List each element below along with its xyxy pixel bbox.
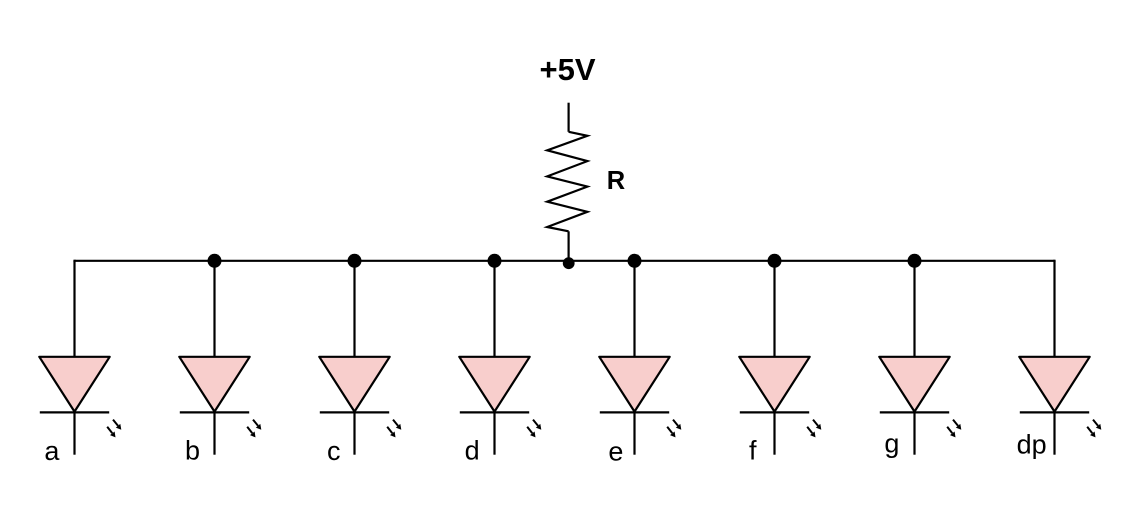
LED f cathode bar xyxy=(740,411,809,413)
LED g diode triangle xyxy=(879,357,949,412)
LED d emission arrows xyxy=(527,420,541,438)
LED f diode triangle xyxy=(739,357,809,412)
LED c cathode bar xyxy=(320,411,389,413)
LED c diode triangle xyxy=(319,357,389,412)
wire LED c cathode lead xyxy=(353,412,355,454)
node dp corner xyxy=(1053,260,1055,262)
node a corner xyxy=(73,260,75,262)
LED b emission arrows xyxy=(247,420,261,438)
LED e cathode bar xyxy=(600,411,669,413)
wire LED a cathode lead xyxy=(73,412,75,454)
svg-text:a: a xyxy=(44,436,60,466)
wire LED e cathode lead xyxy=(633,412,635,454)
wire LED f cathode lead xyxy=(773,412,775,454)
wire bus to LED a anode xyxy=(73,261,75,359)
wire common anode bus xyxy=(75,260,1055,262)
svg-text:R: R xyxy=(607,167,625,195)
LED dp cathode bar xyxy=(1020,411,1089,413)
wire LED d cathode lead xyxy=(493,412,495,454)
LED b cathode bar xyxy=(180,411,249,413)
LED a emission arrows xyxy=(107,420,121,438)
wire bus to LED d anode xyxy=(493,261,495,359)
wire bus to LED e anode xyxy=(633,261,635,359)
LED a diode triangle xyxy=(39,357,109,412)
LED g emission arrows xyxy=(947,420,961,438)
node e junction xyxy=(628,254,642,268)
junction resistor-bus node xyxy=(563,257,575,269)
node c junction xyxy=(348,254,362,268)
resistor R xyxy=(547,132,587,232)
svg-text:d: d xyxy=(465,436,480,466)
wire LED b cathode lead xyxy=(213,412,215,454)
wire LED dp cathode lead xyxy=(1053,412,1055,454)
wire bus to LED c anode xyxy=(353,261,355,359)
LED d diode triangle xyxy=(459,357,529,412)
svg-text:+5V: +5V xyxy=(539,52,595,87)
wire bus to LED dp anode xyxy=(1053,261,1055,359)
wire bus to LED g anode xyxy=(913,261,915,359)
LED e emission arrows xyxy=(667,420,681,438)
LED g cathode bar xyxy=(880,411,949,413)
svg-text:e: e xyxy=(608,436,623,466)
wire +5V to resistor R top xyxy=(567,103,569,132)
LED dp emission arrows xyxy=(1087,420,1101,438)
LED c emission arrows xyxy=(387,420,401,438)
svg-text:dp: dp xyxy=(1017,430,1047,460)
LED e diode triangle xyxy=(599,357,669,412)
svg-text:g: g xyxy=(884,428,899,458)
wire bus to LED b anode xyxy=(213,261,215,359)
LED b diode triangle xyxy=(179,357,249,412)
wire LED g cathode lead xyxy=(913,412,915,454)
wire bus to LED f anode xyxy=(773,261,775,359)
node f junction xyxy=(768,254,782,268)
LED dp diode triangle xyxy=(1019,357,1089,412)
svg-text:f: f xyxy=(749,436,757,466)
node d junction xyxy=(488,254,502,268)
svg-text:b: b xyxy=(185,436,200,466)
wire resistor R bottom to bus xyxy=(567,231,569,260)
LED f emission arrows xyxy=(807,420,821,438)
svg-text:c: c xyxy=(327,436,341,466)
node g junction xyxy=(908,254,922,268)
LED d cathode bar xyxy=(460,411,529,413)
node b junction xyxy=(208,254,222,268)
LED a cathode bar xyxy=(40,411,109,413)
